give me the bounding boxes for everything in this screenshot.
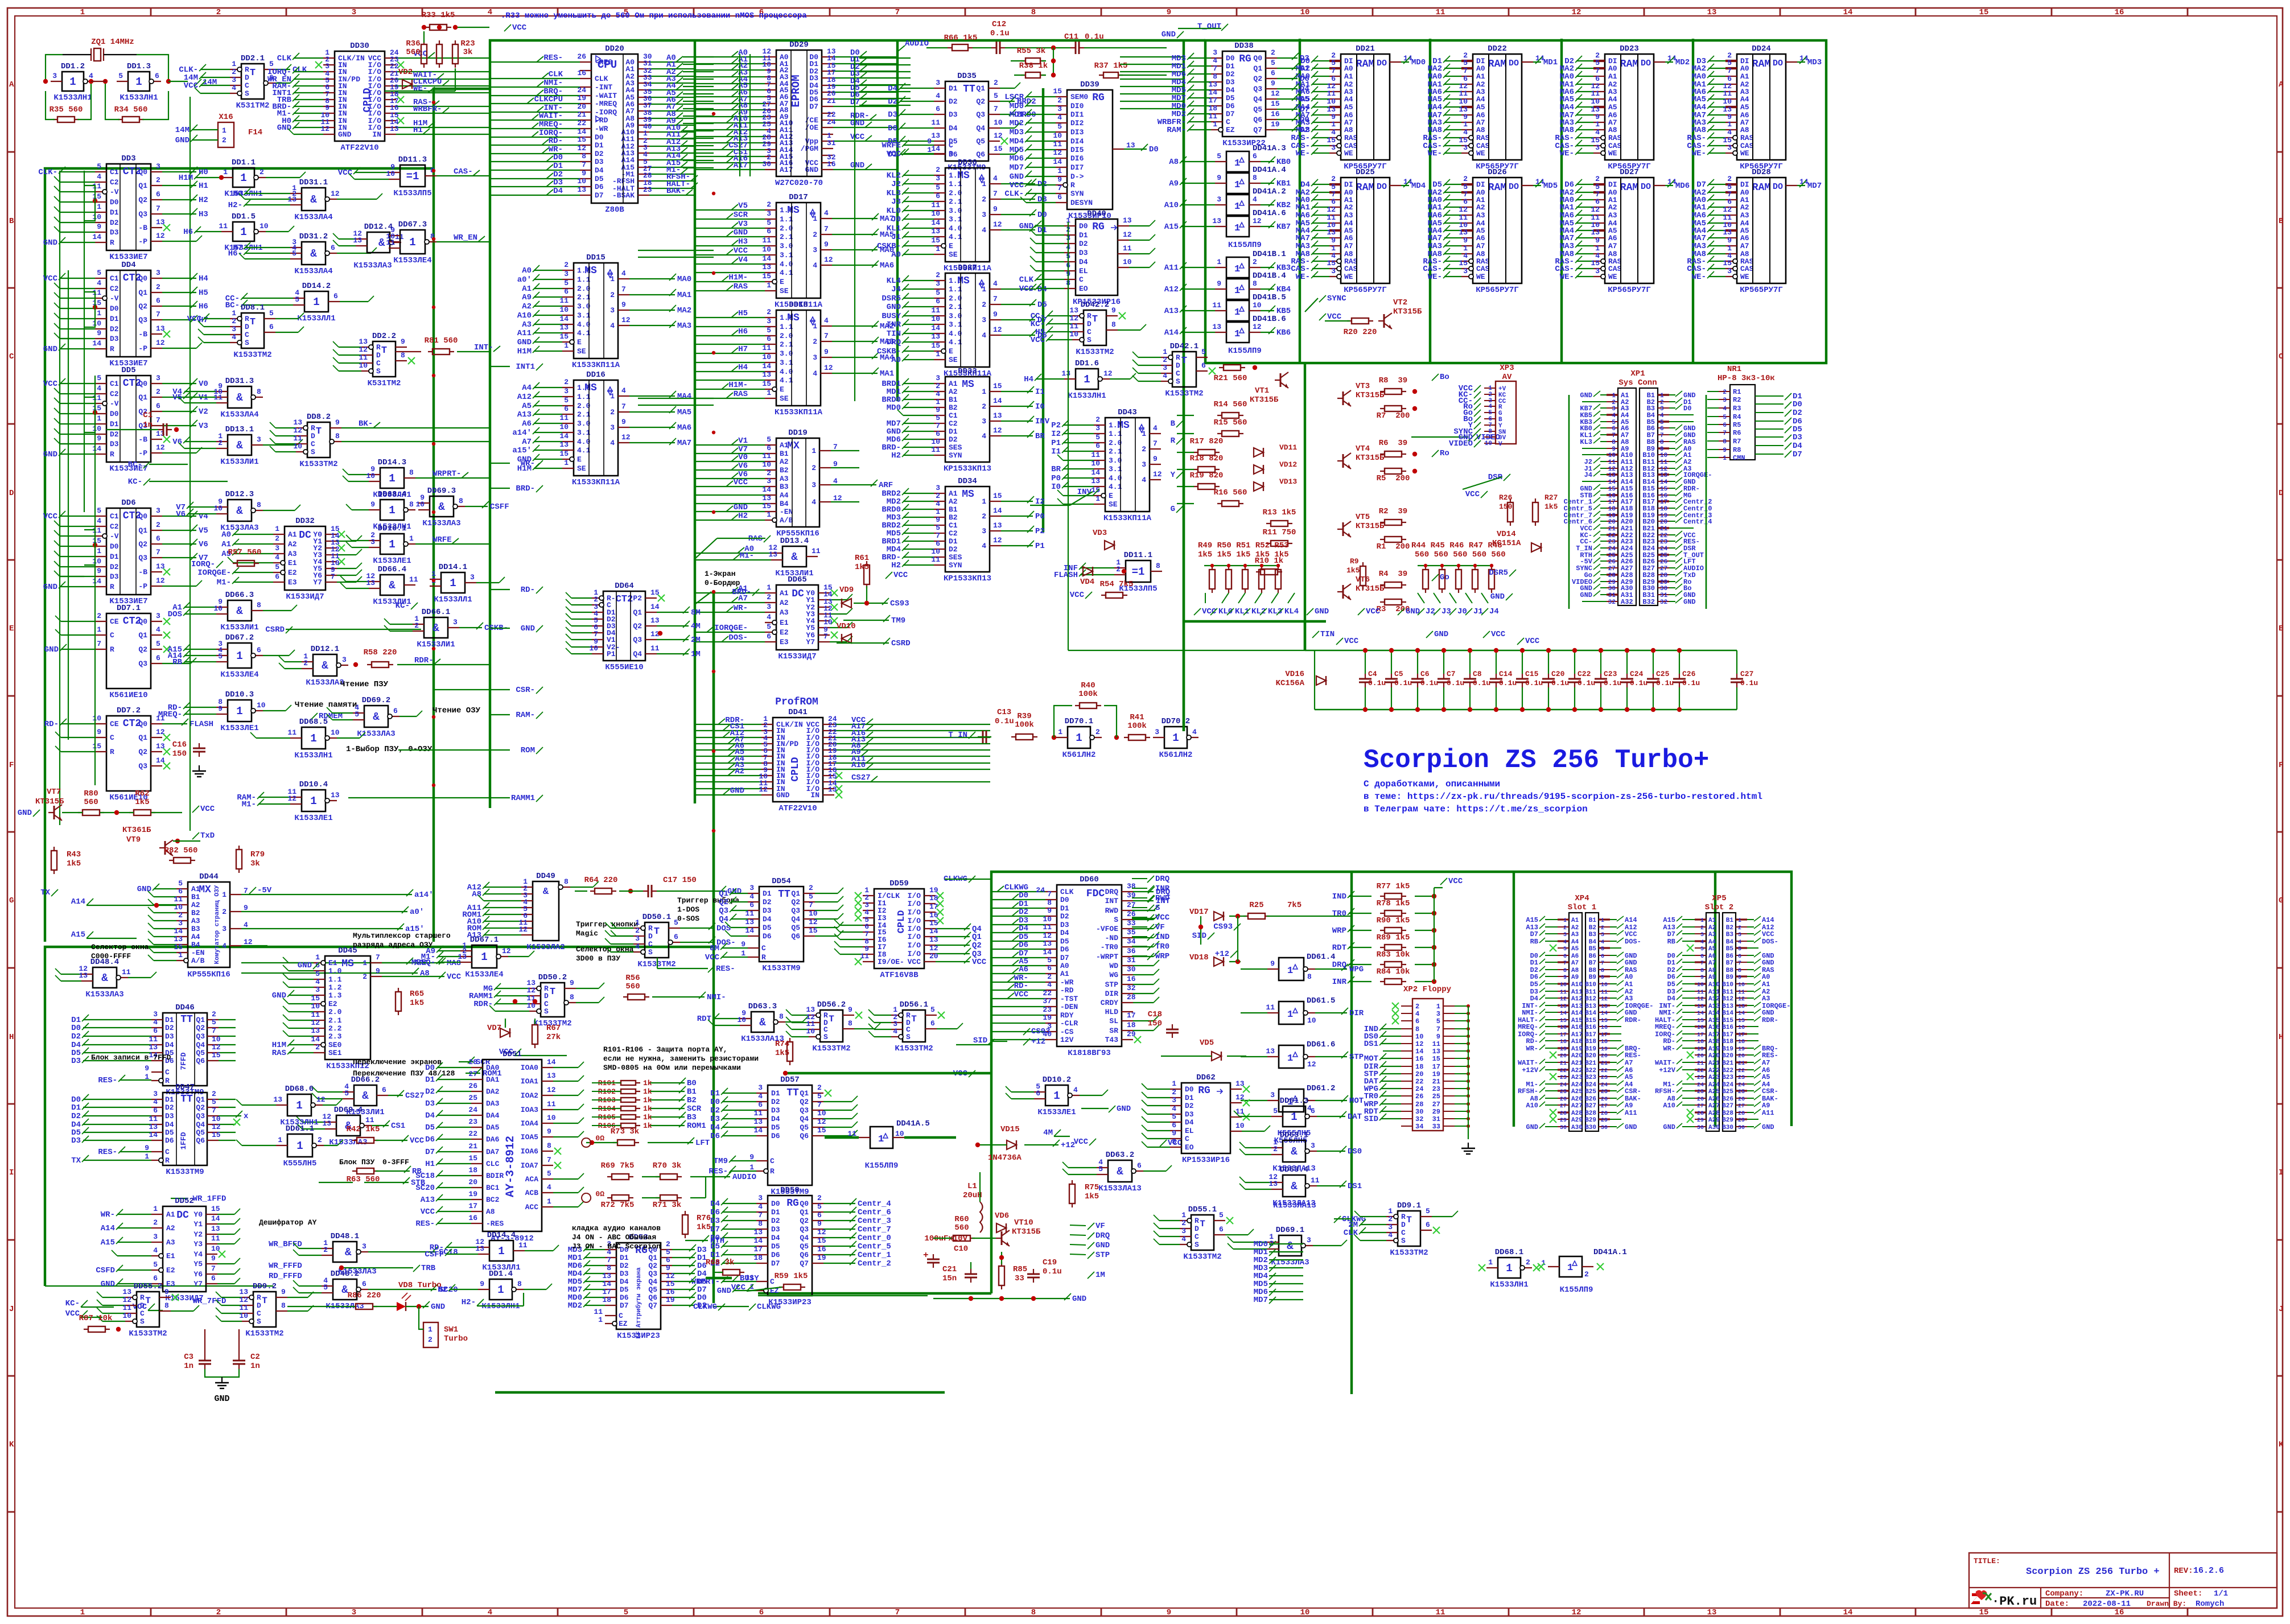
svg-text:I9/OE-: I9/OE- <box>878 958 904 966</box>
svg-text:11: 11 <box>1212 301 1221 310</box>
svg-text:B1: B1 <box>191 893 200 901</box>
svg-text:D1: D1 <box>1079 231 1088 240</box>
svg-text:RB: RB <box>412 1167 422 1176</box>
svg-text:6: 6 <box>155 72 159 80</box>
svg-text:D2: D2 <box>949 545 958 554</box>
svg-text:Q3: Q3 <box>138 316 147 324</box>
svg-text:C1: C1 <box>110 274 119 283</box>
svg-text:13: 13 <box>753 1228 763 1236</box>
svg-text:R82 560: R82 560 <box>164 846 198 855</box>
svg-text:8: 8 <box>1031 8 1036 17</box>
svg-text:12: 12 <box>993 220 1002 229</box>
svg-text:9: 9 <box>749 1153 754 1161</box>
svg-text:14: 14 <box>993 397 1002 405</box>
svg-text:13: 13 <box>331 791 340 799</box>
svg-text:DD42.2: DD42.2 <box>1081 300 1109 310</box>
svg-text:4.0: 4.0 <box>949 329 962 338</box>
svg-text:11: 11 <box>92 182 101 191</box>
svg-text:DI: DI <box>1344 180 1353 189</box>
svg-text:2: 2 <box>1463 175 1468 183</box>
svg-text:1: 1 <box>97 625 101 634</box>
svg-text:10: 10 <box>92 319 101 328</box>
svg-text:100k: 100k <box>1015 720 1034 729</box>
svg-text:VCC: VCC <box>1366 607 1381 616</box>
svg-text:1: 1 <box>80 1608 85 1617</box>
svg-text:SE1: SE1 <box>328 1049 342 1057</box>
svg-text:RES-: RES- <box>709 1167 728 1176</box>
svg-text:MD1: MD1 <box>1010 110 1024 119</box>
svg-text:D0: D0 <box>888 124 897 133</box>
svg-text:560: 560 <box>84 798 98 807</box>
svg-text:DD11.3: DD11.3 <box>398 155 427 164</box>
svg-text:4: 4 <box>767 613 771 621</box>
svg-text:RAM-: RAM- <box>1167 126 1186 135</box>
svg-text:1: 1 <box>1213 120 1217 129</box>
svg-text:X16: X16 <box>219 113 233 122</box>
svg-text:3: 3 <box>153 1010 158 1019</box>
svg-text:Q3: Q3 <box>791 906 800 915</box>
svg-text:2: 2 <box>610 408 615 417</box>
svg-text:11: 11 <box>386 238 395 247</box>
svg-text:2: 2 <box>809 884 813 892</box>
svg-text:10: 10 <box>559 306 569 314</box>
svg-text:R20 220: R20 220 <box>1344 328 1377 337</box>
svg-text:13: 13 <box>322 1119 331 1128</box>
svg-text:0-SOS: 0-SOS <box>677 914 699 923</box>
svg-text:4: 4 <box>1331 128 1336 137</box>
svg-text:4: 4 <box>1253 195 1257 204</box>
svg-text:RAS: RAS <box>1608 134 1622 142</box>
svg-text:CE: CE <box>110 617 119 626</box>
svg-text:FLASH: FLASH <box>190 720 213 729</box>
svg-text:7: 7 <box>212 1027 216 1035</box>
svg-text:WE-: WE- <box>1560 149 1574 158</box>
svg-text:13: 13 <box>1608 472 1616 479</box>
svg-text:&: & <box>791 551 798 563</box>
svg-text:D1: D1 <box>110 420 119 428</box>
svg-text:11: 11 <box>219 222 228 230</box>
svg-text:VT1: VT1 <box>1255 386 1269 395</box>
svg-text:3: 3 <box>1095 424 1100 432</box>
svg-text:10: 10 <box>1660 452 1667 459</box>
svg-text:15: 15 <box>468 1154 477 1163</box>
svg-text:3: 3 <box>767 317 771 325</box>
svg-text:2: 2 <box>564 261 569 269</box>
svg-text:1: 1 <box>936 245 940 253</box>
svg-text:13: 13 <box>1126 141 1135 150</box>
svg-text:H0: H0 <box>199 168 208 177</box>
svg-text:3: 3 <box>156 374 160 382</box>
svg-text:3: 3 <box>453 618 458 626</box>
svg-text:K1533ЛН1: K1533ЛН1 <box>120 93 158 102</box>
svg-text:1FFD: 1FFD <box>179 1132 188 1149</box>
svg-text:Q3: Q3 <box>719 906 728 916</box>
svg-text:5: 5 <box>292 249 296 258</box>
svg-text:R: R <box>949 150 953 158</box>
svg-text:K1533ЛН1: K1533ЛН1 <box>53 93 92 102</box>
svg-text:7: 7 <box>1723 430 1727 437</box>
svg-text:Q4: Q4 <box>196 1041 205 1049</box>
svg-text:RWD: RWD <box>1105 906 1119 915</box>
svg-text:4: 4 <box>232 84 236 92</box>
svg-text:LSCR: LSCR <box>1004 93 1024 102</box>
svg-text:DA0: DA0 <box>486 1064 500 1072</box>
svg-text:WRPRT-: WRPRT- <box>433 469 461 479</box>
svg-text:11: 11 <box>1660 459 1668 466</box>
svg-text:REV:: REV: <box>2174 1567 2193 1576</box>
svg-text:RES-: RES- <box>716 964 735 974</box>
svg-text:10: 10 <box>1608 452 1616 459</box>
svg-text:Q7: Q7 <box>800 1259 809 1268</box>
svg-text:4: 4 <box>1595 128 1600 137</box>
svg-text:CAS: CAS <box>1740 265 1754 273</box>
svg-text:D7: D7 <box>1226 110 1235 118</box>
svg-text:R65: R65 <box>410 990 424 999</box>
svg-text:R: R <box>110 450 114 459</box>
svg-text:11: 11 <box>92 288 101 297</box>
svg-text:1: 1 <box>223 168 228 176</box>
svg-text:1: 1 <box>389 472 395 485</box>
svg-text:1: 1 <box>564 341 569 350</box>
svg-text:WRBFR-: WRBFR- <box>413 105 442 114</box>
svg-text:4: 4 <box>936 500 940 508</box>
svg-text:DA3: DA3 <box>486 1099 500 1108</box>
svg-text:S: S <box>376 367 381 376</box>
svg-text:11: 11 <box>359 353 368 362</box>
svg-text:TITLE:: TITLE: <box>1974 1557 2000 1565</box>
svg-text:Q1: Q1 <box>138 526 147 535</box>
svg-text:8: 8 <box>848 1019 852 1028</box>
svg-text:&: & <box>310 193 317 206</box>
svg-text:DA1: DA1 <box>486 1075 500 1084</box>
svg-text:3: 3 <box>1057 105 1062 113</box>
svg-text:D1: D1 <box>1060 904 1069 913</box>
svg-text:DD70.1: DD70.1 <box>1065 717 1093 726</box>
svg-text:6: 6 <box>936 430 940 438</box>
svg-text:DD31.2: DD31.2 <box>299 232 328 241</box>
svg-text:ATF16V8B: ATF16V8B <box>880 971 919 980</box>
svg-text:D6: D6 <box>1300 75 1309 84</box>
svg-text:AV: AV <box>1502 373 1512 382</box>
svg-text:16: 16 <box>1271 110 1280 118</box>
svg-text:10: 10 <box>1123 258 1132 266</box>
svg-text:ACB: ACB <box>525 1189 539 1197</box>
svg-text:&: & <box>543 887 549 897</box>
svg-text:-B: -B <box>138 224 147 232</box>
svg-text:·PK.ru: ·PK.ru <box>1992 1594 2037 1609</box>
svg-text:разряда адреса ОЗУ: разряда адреса ОЗУ <box>353 941 433 949</box>
svg-text:Q2: Q2 <box>138 302 147 311</box>
svg-text:Centr_6: Centr_6 <box>858 1208 891 1217</box>
svg-text:4: 4 <box>1723 406 1727 413</box>
svg-text:-MREQ: -MREQ <box>595 100 617 108</box>
svg-text:WR_FFFD: WR_FFFD <box>269 1262 302 1271</box>
svg-text:10: 10 <box>174 903 183 912</box>
svg-text:13: 13 <box>993 411 1002 420</box>
svg-text:560 560 560 560 560: 560 560 560 560 560 <box>1415 550 1506 559</box>
svg-text:A0: A0 <box>1476 64 1485 73</box>
svg-text:3: 3 <box>564 387 569 395</box>
svg-text:C: C <box>1176 369 1180 378</box>
svg-text:4M: 4M <box>691 622 701 631</box>
svg-text:R74: R74 <box>775 1040 789 1049</box>
svg-text:C14: C14 <box>1499 670 1513 678</box>
svg-text:10: 10 <box>1053 131 1062 140</box>
svg-text:11: 11 <box>1436 8 1445 17</box>
svg-text:E: E <box>9 624 14 633</box>
svg-text:14: 14 <box>559 432 569 440</box>
svg-text:INV: INV <box>1035 417 1050 426</box>
svg-text:T: T <box>316 426 322 437</box>
svg-text:D5: D5 <box>1300 95 1309 104</box>
svg-text:1k5: 1k5 <box>1346 566 1360 575</box>
svg-text:R44 R45 R46 R47 R48: R44 R45 R46 R47 R48 <box>1411 541 1502 550</box>
svg-text:&: & <box>310 248 317 260</box>
svg-text:2: 2 <box>315 1043 320 1052</box>
svg-text:A6: A6 <box>1344 234 1353 242</box>
svg-text:BAK-: BAK- <box>666 187 686 196</box>
svg-text:Q0: Q0 <box>1253 54 1262 63</box>
svg-text:D: D <box>245 323 249 331</box>
svg-text:DD10.1: DD10.1 <box>378 524 406 533</box>
svg-text:D4: D4 <box>165 1041 174 1049</box>
svg-text:INV: INV <box>1077 488 1092 497</box>
svg-text:DD7.1: DD7.1 <box>117 604 141 613</box>
svg-text:1: 1 <box>278 1136 282 1144</box>
svg-text:CLK: CLK <box>1019 275 1034 285</box>
svg-text:MS: MS <box>962 489 974 500</box>
svg-text:K1533ТМ9: K1533ТМ9 <box>762 964 800 973</box>
svg-text:0.1u: 0.1u <box>1447 679 1464 687</box>
svg-text:13: 13 <box>768 550 777 559</box>
svg-text:Q1: Q1 <box>719 889 728 898</box>
svg-text:1-Экран: 1-Экран <box>705 570 736 578</box>
svg-text:12: 12 <box>809 918 818 926</box>
svg-text:13: 13 <box>287 195 296 204</box>
svg-text:D3: D3 <box>949 110 958 119</box>
svg-text:3: 3 <box>275 544 279 553</box>
svg-text:5: 5 <box>97 374 101 382</box>
svg-text:A5: A5 <box>522 402 532 411</box>
svg-text:5: 5 <box>212 1018 216 1027</box>
svg-text:EPROM: EPROM <box>790 75 802 107</box>
svg-text:DI7: DI7 <box>1070 163 1084 172</box>
svg-text:9: 9 <box>824 240 829 249</box>
svg-text:6: 6 <box>564 287 569 296</box>
svg-text:5: 5 <box>218 652 223 661</box>
svg-text:DD34: DD34 <box>958 477 977 486</box>
svg-text:4: 4 <box>1047 980 1052 989</box>
svg-text:1: 1 <box>1660 393 1664 399</box>
svg-text:R5 200: R5 200 <box>1377 474 1410 483</box>
svg-text:4: 4 <box>758 1202 763 1211</box>
svg-text:Q6: Q6 <box>800 1132 809 1140</box>
svg-text:12: 12 <box>518 925 528 934</box>
svg-text:VD12: VD12 <box>1279 460 1297 469</box>
svg-text:Q0: Q0 <box>138 274 147 283</box>
svg-text:8: 8 <box>257 388 261 396</box>
svg-text:GND: GND <box>850 161 864 170</box>
svg-text:DD6: DD6 <box>121 498 135 508</box>
svg-text:Y2: Y2 <box>193 1230 203 1239</box>
svg-text:9: 9 <box>848 1005 852 1014</box>
svg-text:Y0: Y0 <box>193 1210 203 1219</box>
svg-text:5: 5 <box>153 1260 158 1269</box>
svg-text:A1: A1 <box>780 441 789 450</box>
svg-text:DD36: DD36 <box>958 158 977 167</box>
svg-text:10: 10 <box>1459 97 1468 106</box>
svg-text:1n: 1n <box>143 421 153 430</box>
svg-text:DD67.2: DD67.2 <box>225 633 254 642</box>
svg-text:R19 820: R19 820 <box>1190 471 1224 480</box>
svg-text:3: 3 <box>156 162 160 171</box>
svg-text:WE: WE <box>1476 273 1485 281</box>
svg-text:DD18: DD18 <box>789 300 808 310</box>
svg-text:К1533ЛА2: К1533ЛА2 <box>526 943 565 952</box>
svg-text:B1: B1 <box>949 505 958 514</box>
svg-text:-P: -P <box>138 582 147 591</box>
svg-text:Sys Conn: Sys Conn <box>1618 378 1657 388</box>
svg-text:WE: WE <box>1608 273 1617 281</box>
svg-text:TT: TT <box>180 1094 193 1105</box>
svg-text:27: 27 <box>468 1070 477 1078</box>
svg-text:10: 10 <box>1327 97 1336 106</box>
svg-text:GND: GND <box>734 228 748 237</box>
svg-text:E3: E3 <box>780 638 789 646</box>
svg-text:A/B: A/B <box>780 516 793 525</box>
svg-text:1: 1 <box>1234 158 1240 169</box>
svg-text:Q1: Q1 <box>138 631 147 640</box>
svg-text:КР565РУ7Г: КР565РУ7Г <box>1608 286 1651 295</box>
svg-text:VCC: VCC <box>338 168 353 178</box>
svg-text:A7: A7 <box>1608 242 1617 250</box>
svg-text:3: 3 <box>758 1194 763 1202</box>
svg-text:15: 15 <box>929 919 938 928</box>
svg-text:S: S <box>1114 916 1118 924</box>
svg-text:RAS: RAS <box>1344 134 1358 142</box>
svg-text:DO: DO <box>1509 59 1519 68</box>
svg-text:27: 27 <box>1608 566 1616 572</box>
svg-text:0-3FFF: 0-3FFF <box>382 1158 409 1167</box>
svg-text:V6: V6 <box>738 461 748 471</box>
svg-text:J4: J4 <box>1489 607 1499 616</box>
svg-text:B2: B2 <box>949 513 958 522</box>
svg-text:D5: D5 <box>771 1242 780 1251</box>
svg-text:A2: A2 <box>1740 203 1749 212</box>
svg-text:CS93: CS93 <box>1213 922 1233 931</box>
svg-text:1: 1 <box>1095 494 1100 503</box>
svg-text:1: 1 <box>389 538 395 551</box>
svg-text:6: 6 <box>767 227 771 236</box>
svg-text:4: 4 <box>936 92 940 100</box>
svg-text:15: 15 <box>994 145 1003 153</box>
svg-text:7: 7 <box>621 285 626 294</box>
svg-text:MA1: MA1 <box>677 291 691 300</box>
svg-text:9: 9 <box>1217 279 1221 288</box>
svg-text:5: 5 <box>269 309 274 318</box>
svg-text:4: 4 <box>813 369 817 378</box>
svg-text:S: S <box>1176 377 1180 386</box>
svg-text:21: 21 <box>1660 526 1668 533</box>
svg-text:IOA5: IOA5 <box>521 1133 538 1141</box>
svg-text:5: 5 <box>1217 152 1221 160</box>
svg-text:11: 11 <box>174 895 183 904</box>
svg-text:D4: D4 <box>710 1200 720 1209</box>
svg-text:1.0: 1.0 <box>780 314 793 322</box>
svg-text:DD22: DD22 <box>1488 44 1507 53</box>
svg-text:MA1: MA1 <box>880 369 894 378</box>
svg-text:1: 1 <box>135 76 142 88</box>
svg-text:E1: E1 <box>328 959 337 967</box>
svg-text:T: T <box>1181 356 1187 366</box>
svg-text:Q4: Q4 <box>791 915 800 924</box>
svg-text:VCC: VCC <box>1031 336 1045 345</box>
svg-text:11: 11 <box>1436 1608 1445 1617</box>
svg-text:10: 10 <box>331 728 340 737</box>
svg-text:D7: D7 <box>710 1225 720 1234</box>
svg-text:A3: A3 <box>522 320 532 329</box>
svg-text:Centr_5: Centr_5 <box>858 1242 891 1251</box>
svg-text:1.1: 1.1 <box>1109 430 1122 438</box>
svg-text:Q2: Q2 <box>196 1024 205 1032</box>
svg-text:VCC: VCC <box>705 953 720 962</box>
svg-text:DD11.1: DD11.1 <box>1124 551 1152 560</box>
svg-text:A10: A10 <box>851 761 866 770</box>
svg-text:11: 11 <box>92 394 101 402</box>
svg-text:3: 3 <box>342 656 347 664</box>
svg-text:13: 13 <box>650 616 660 625</box>
svg-text:8: 8 <box>459 497 463 505</box>
svg-text:11: 11 <box>1053 140 1062 149</box>
svg-text:ProfROM: ProfROM <box>775 696 818 708</box>
svg-text:К1533ЛА3: К1533ЛА3 <box>306 678 344 687</box>
svg-text:D2: D2 <box>110 430 119 439</box>
svg-text:1.1: 1.1 <box>949 285 962 294</box>
svg-text:K1533ТМ2: K1533ТМ2 <box>1076 348 1114 357</box>
svg-text:E1: E1 <box>780 619 789 627</box>
svg-text:2: 2 <box>222 908 226 916</box>
svg-text:R23: R23 <box>460 39 475 48</box>
svg-text:КР555КП16: КР555КП16 <box>187 970 230 979</box>
svg-text:RAS: RAS <box>272 1049 286 1058</box>
svg-text:VT5: VT5 <box>1356 513 1370 522</box>
svg-text:DD8.1: DD8.1 <box>241 303 265 312</box>
svg-text:TX: TX <box>40 888 50 897</box>
svg-text:I/O: I/O <box>908 925 921 933</box>
svg-text:К1533ЛИ1: К1533ЛИ1 <box>220 623 258 632</box>
svg-text:CSKB-: CSKB- <box>877 347 901 356</box>
svg-text:C13: C13 <box>997 708 1011 717</box>
svg-text:9: 9 <box>817 1219 822 1228</box>
svg-text:1: 1 <box>812 447 816 455</box>
svg-text:CSR-: CSR- <box>516 686 535 695</box>
svg-text:13: 13 <box>1723 228 1732 237</box>
svg-text:C: C <box>376 359 381 368</box>
svg-text:3k: 3k <box>250 859 260 868</box>
svg-text:VT7: VT7 <box>47 788 61 797</box>
svg-text:T43: T43 <box>1105 1036 1119 1044</box>
svg-text:30: 30 <box>762 160 771 168</box>
svg-text:16: 16 <box>577 69 586 77</box>
svg-text:KC151A: KC151A <box>1492 539 1521 548</box>
svg-text:RAM-: RAM- <box>516 711 535 720</box>
svg-text:D4: D4 <box>425 1111 435 1120</box>
svg-text:6: 6 <box>767 444 771 452</box>
svg-text:V5: V5 <box>199 526 208 535</box>
svg-text:11: 11 <box>311 1011 320 1019</box>
svg-text:8M: 8M <box>691 608 701 617</box>
svg-text:VCC: VCC <box>887 150 901 159</box>
